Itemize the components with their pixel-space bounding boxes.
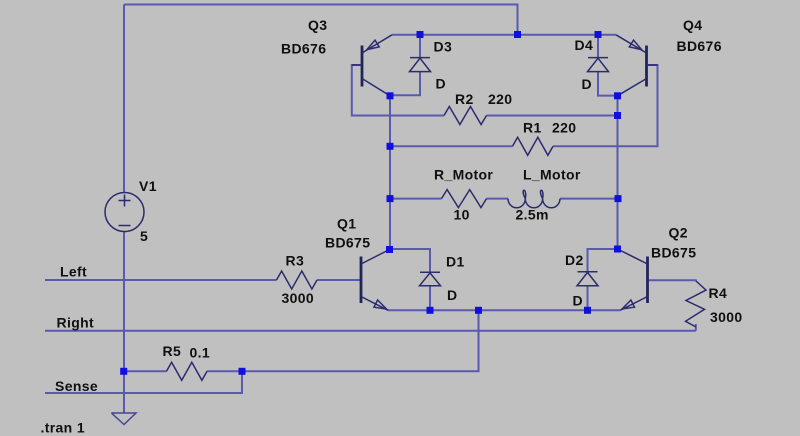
svg-text:D: D: [573, 293, 583, 309]
label D2: [565, 252, 584, 268]
svg-text:Q2: Q2: [669, 225, 688, 241]
svg-text:V1: V1: [139, 178, 157, 194]
wire D2 top to right collector junction: [588, 249, 618, 272]
junction left leg R1: [387, 143, 394, 150]
svg-text:D: D: [447, 287, 457, 303]
label D1: [446, 254, 465, 270]
value BD675 right: [651, 245, 696, 261]
label R2: [455, 91, 474, 107]
wire Right input line to R4: [45, 330, 696, 332]
label Q4: [683, 17, 702, 33]
wire R5 left lead: [124, 370, 167, 372]
label Q3: [308, 17, 327, 33]
svg-text:BD675: BD675: [651, 245, 696, 261]
directive .tran 1: [41, 420, 85, 436]
voltage source V1: [105, 193, 144, 232]
svg-text:5: 5: [140, 228, 148, 244]
svg-text:R3: R3: [286, 253, 305, 269]
wire D3 top lead: [419, 35, 421, 58]
svg-text:R5: R5: [163, 343, 182, 359]
label R4: [709, 285, 728, 301]
junction on top rail at supply: [514, 31, 521, 38]
svg-text:D: D: [436, 76, 446, 92]
junction bottom rail at D2: [584, 307, 591, 314]
resistor R5: [167, 362, 208, 380]
svg-text:L_Motor: L_Motor: [523, 167, 581, 183]
svg-text:BD676: BD676: [281, 41, 326, 57]
value 0.1: [190, 345, 211, 361]
wire D4 bottom to right leg: [598, 72, 618, 96]
svg-text:R4: R4: [709, 285, 728, 301]
value BD676 left: [281, 41, 326, 57]
value 2.5m: [516, 207, 549, 223]
wire top rail of bridge: [392, 34, 616, 36]
wire left leg of bridge: [389, 96, 391, 250]
wire bottom rail of bridge: [388, 309, 620, 311]
junction on top rail at D4: [595, 31, 602, 38]
wire V1 bottom lead to ground: [123, 232, 125, 414]
value 3000 of R4: [710, 309, 743, 325]
value D of D1: [447, 287, 457, 303]
transistor Q2: [618, 249, 648, 310]
wire D1 bottom lead: [429, 286, 431, 311]
label R_Motor: [434, 167, 493, 183]
diode D1: [420, 272, 441, 286]
svg-text:220: 220: [488, 91, 512, 107]
wire Sense line: [45, 371, 242, 393]
wire Q3 base to R2: [352, 65, 444, 116]
svg-text:Q3: Q3: [308, 17, 327, 33]
svg-text:BD675: BD675: [325, 235, 370, 251]
value D of D4: [582, 76, 592, 92]
wire D3 bottom to left leg: [390, 72, 420, 96]
junction R5 left on main vertical: [120, 368, 127, 375]
svg-text:D1: D1: [446, 254, 465, 270]
wire R5 right to bridge bottom rail: [207, 310, 479, 371]
svg-text:D: D: [582, 76, 592, 92]
wire D1 top to left collector junction: [390, 249, 430, 272]
resistor R_Motor: [442, 190, 487, 208]
svg-text:220: 220: [552, 120, 576, 136]
svg-text:0.1: 0.1: [190, 345, 211, 361]
junction R5 right sense tap: [239, 368, 246, 375]
wire D2 bottom lead: [587, 286, 589, 311]
svg-text:Right: Right: [57, 315, 95, 331]
junction on top rail at D3: [417, 31, 424, 38]
junction bottom rail at sense tap: [475, 307, 482, 314]
label D4: [575, 37, 594, 53]
resistor R3: [277, 271, 318, 289]
svg-text:R_Motor: R_Motor: [434, 167, 493, 183]
svg-text:3000: 3000: [710, 309, 743, 325]
diode D4: [588, 58, 609, 72]
svg-text:R1: R1: [523, 120, 542, 136]
svg-text:D3: D3: [434, 39, 453, 55]
wire motor row left: [390, 198, 442, 200]
value 220 of R1: [552, 120, 576, 136]
wire R2 to right leg: [487, 115, 618, 117]
wire motor row middle: [487, 198, 509, 200]
label V1: [139, 178, 157, 194]
wire Left input line: [45, 279, 277, 281]
transistor Q4: [616, 35, 658, 96]
value BD676 right: [677, 38, 722, 54]
transistor Q3: [352, 35, 392, 96]
label L_Motor: [523, 167, 581, 183]
junction left leg Q3 collector: [387, 92, 394, 99]
junction right leg Q2 collector: [614, 246, 621, 253]
svg-text:Q4: Q4: [683, 17, 702, 33]
wire V1 top lead: [123, 5, 125, 193]
svg-text:BD676: BD676: [677, 38, 722, 54]
label R5: [163, 343, 182, 359]
label D3: [434, 39, 453, 55]
node label Left: [60, 264, 87, 280]
transistor Q1: [361, 250, 390, 311]
svg-text:R2: R2: [455, 91, 474, 107]
value BD675 left: [325, 235, 370, 251]
value 220 of R2: [488, 91, 512, 107]
wire R3 to Q1 base: [317, 279, 360, 281]
value 5: [140, 228, 148, 244]
wire right leg of bridge: [617, 96, 619, 249]
wire Q2 base to R4: [649, 280, 696, 281]
svg-text:2.5m: 2.5m: [516, 207, 549, 223]
node label Sense: [55, 378, 98, 394]
label R1: [523, 120, 542, 136]
svg-text:D2: D2: [565, 252, 584, 268]
diode D2: [577, 272, 598, 286]
label R3: [286, 253, 305, 269]
junction right leg R2: [614, 112, 621, 119]
label Q2: [669, 225, 688, 241]
value D of D2: [573, 293, 583, 309]
inductor L_Motor: [508, 190, 560, 208]
diode D3: [410, 58, 431, 72]
value 10: [454, 207, 470, 223]
resistor R2: [444, 107, 487, 125]
svg-text:Left: Left: [60, 264, 87, 280]
wire R4 bottom lead: [695, 324, 697, 331]
junction bottom rail at D1: [427, 307, 434, 314]
ground: [112, 413, 136, 425]
wire R1 to Q4 base: [553, 65, 658, 146]
junction right leg motor row: [615, 195, 622, 202]
wire top supply from V1 to bridge: [124, 5, 518, 35]
junction right leg Q4 collector: [614, 92, 621, 99]
svg-text:.tran 1: .tran 1: [41, 420, 85, 436]
wire R1 row left: [390, 145, 513, 147]
junction left leg motor row: [387, 195, 394, 202]
svg-text:3000: 3000: [282, 290, 315, 306]
junction left leg Q1 collector: [386, 246, 393, 253]
label Q1: [337, 216, 356, 232]
value 3000 of R3: [282, 290, 315, 306]
node label Right: [57, 315, 95, 331]
svg-text:10: 10: [454, 207, 470, 223]
resistor R4: [686, 281, 707, 327]
value D of D3: [436, 76, 446, 92]
svg-text:D4: D4: [575, 37, 594, 53]
svg-text:Q1: Q1: [337, 216, 356, 232]
wire D4 top lead: [597, 35, 599, 58]
wire motor row right: [560, 198, 618, 200]
svg-text:Sense: Sense: [55, 378, 98, 394]
resistor R1: [513, 137, 554, 155]
